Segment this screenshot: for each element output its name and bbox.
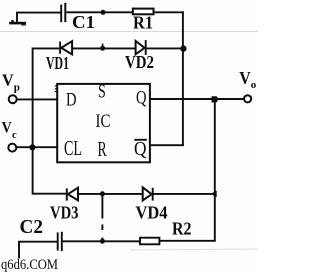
wire right rail x=183 down to Q-bar row: [182, 11, 184, 146]
node: junction dot right rail / diode row: [180, 45, 186, 51]
wire R2 to right corner: [160, 240, 216, 242]
diode VD4: [143, 187, 153, 200]
wire VD2 to right rail: [147, 47, 183, 49]
terminal Vc: [8, 144, 16, 152]
capacitor C2: [58, 232, 62, 251]
diode VD1: [60, 41, 72, 54]
ground: [9, 12, 26, 25]
wire VD4 to right rail: [154, 193, 213, 195]
wire diode row 2 left segment: [33, 193, 67, 195]
op-amp IC box: [57, 84, 150, 162]
wire diode row 1 left segment: [33, 47, 60, 49]
svg-text:o: o: [251, 79, 257, 91]
label Vc: [2, 119, 18, 141]
terminal Vp: [9, 95, 17, 103]
svg-text:VD2: VD2: [125, 52, 154, 72]
svg-text:R1: R1: [133, 13, 153, 33]
svg-text:VD1: VD1: [46, 53, 69, 73]
svg-text:VD4: VD4: [136, 202, 168, 222]
wire ground to C1: [16, 12, 60, 14]
svg-text:C1: C1: [72, 12, 95, 32]
ticks on IC left edge: [55, 86, 57, 92]
svg-text:V: V: [2, 119, 13, 136]
wire VD3 to junction: [79, 193, 143, 195]
label Vo: [239, 68, 256, 91]
resistor R2: [140, 238, 159, 245]
svg-text:c: c: [12, 130, 17, 141]
node: junction dot C1/R1: [101, 10, 106, 15]
wire left rail: [32, 48, 34, 195]
svg-text:CL: CL: [64, 136, 82, 160]
wire Vc to CL pin: [17, 146, 58, 148]
svg-text:Q: Q: [136, 88, 147, 109]
node: junction blob Q row: [212, 96, 219, 102]
svg-text:V: V: [2, 70, 14, 89]
svg-text:Q: Q: [134, 139, 147, 160]
label Vp: [2, 70, 20, 93]
svg-text:R2: R2: [172, 219, 192, 239]
wire vertical VD3 junction to bottom row: [101, 194, 103, 219]
diode VD3: [67, 188, 78, 201]
scan artifact band: [0, 31, 258, 33]
node: junction dot bottom row: [100, 239, 105, 244]
wire VD1 to VD2: [73, 47, 135, 49]
node: junction dot with stub: [100, 44, 105, 51]
wire right rail x=215: [214, 99, 216, 241]
svg-text:C2: C2: [20, 216, 44, 238]
scan artifact band bottom: [130, 249, 258, 250]
svg-text:S: S: [98, 81, 106, 103]
wire R1 to right rail corner: [154, 11, 184, 13]
svg-text:p: p: [14, 82, 20, 94]
wire C1 to R1: [66, 11, 132, 13]
wire C2 to R2: [63, 240, 140, 242]
wire Q output: [151, 98, 213, 100]
resistor R1: [133, 9, 154, 15]
svg-text:R: R: [98, 137, 107, 161]
node: junction dot Vc row: [29, 144, 35, 150]
svg-text:IC: IC: [96, 111, 111, 132]
pin label Q-bar: [134, 139, 147, 160]
svg-text:V: V: [239, 68, 251, 88]
capacitor C1: [61, 3, 65, 22]
wire Vp to D pin: [17, 98, 57, 100]
wire junction to Vo: [218, 98, 244, 100]
svg-text:q6d6.COM: q6d6.COM: [1, 257, 58, 273]
terminal Vo: [244, 95, 251, 102]
svg-text:D: D: [66, 90, 77, 111]
wire bottom row left of C2: [18, 241, 57, 243]
wire bottom-left corner stub: [18, 241, 20, 258]
svg-text:VD3: VD3: [50, 202, 79, 222]
node: junction dot VD3/C2: [100, 191, 105, 196]
diode VD2: [136, 40, 146, 55]
wire Q-bar output: [151, 144, 184, 146]
node: junction arrow on right rail: [211, 191, 217, 198]
